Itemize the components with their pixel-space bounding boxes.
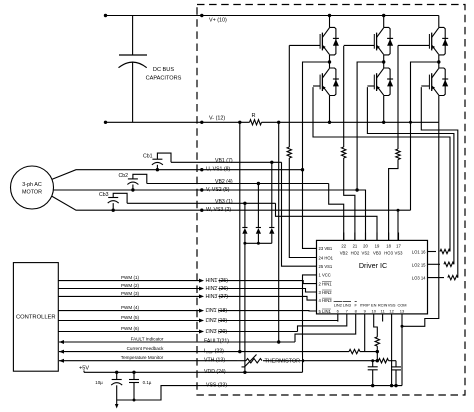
wire LO3 gate return [421,87,458,278]
svg-text:VS3: VS3 [395,251,404,256]
node C1 at thermistor row [371,359,374,362]
wire Cb3 bottom lead [112,203,114,210]
wire V- bus right segment [262,121,439,123]
node VB3 bootstrap diode tap [243,202,246,205]
wire C3 top lead [116,372,118,379]
svg-text:Cb2: Cb2 [118,173,128,179]
svg-text:3 HIN2: 3 HIN2 [319,290,333,295]
svg-text:20: 20 [363,244,368,249]
resistor RC filter [379,359,389,363]
pin 10 EN stub [373,314,375,322]
wire HO2 gate column lower [344,158,355,240]
op-amp U1 Driver IC box [317,240,428,314]
capacitor Cb2 [128,178,138,180]
wire thermistor to VCC column [263,360,303,362]
wire FAULT row [59,341,295,343]
svg-text:RCIN: RCIN [378,303,388,308]
svg-text:VSS (23): VSS (23) [206,382,227,388]
node V+ at module boundary [200,14,203,17]
capacitor DC bus (polarized) [119,54,147,56]
wire LIN1 row to IC [219,310,317,312]
svg-text:ITRIP (22): ITRIP (22) [204,348,224,354]
resistor LO1 gate [440,249,450,253]
wire PWM 3 row [58,295,200,297]
transistor Q3 high-side IGBT [383,16,385,28]
wire ITRIP pin riser [364,322,366,352]
svg-text:5 LIN1: 5 LIN1 [319,309,332,314]
wire COM staircase from V- rail [402,122,439,326]
wire C3 bottom lead [116,385,118,400]
transistor Q5 high-side IGBT [438,16,440,28]
svg-text:10: 10 [371,308,376,313]
motor M 3-ph AC [11,166,54,209]
wire PWM 1 row [58,280,200,282]
svg-text:17: 17 [396,244,401,249]
pin 22 VB2 stub [343,233,345,241]
svg-text:VDD (24): VDD (24) [204,369,226,375]
node phase W [437,60,440,63]
node phase V [382,60,385,63]
svg-text:PWM (6): PWM (6) [121,326,140,331]
resistor EN pull [375,337,379,346]
wire bootstrap diode 3 column [271,162,273,227]
node V- at phase 1 [328,121,331,124]
wire PWM 4 row [58,310,200,312]
capacitor C3 electrolytic [112,379,122,381]
pin 19 VB3 stub [376,233,378,241]
wire ITRIP row [59,351,349,353]
transistor Q6 low-side IGBT [438,62,440,68]
wire V+ bus rail [106,15,439,17]
node VSS rail junction [390,384,393,387]
wire VB3 jog to IC pin 19 [276,203,378,240]
svg-text:Driver IC: Driver IC [359,261,387,270]
wire HO2 gate column upper [343,46,345,147]
wire HIN1 row to IC [219,281,317,284]
node V+ at phase 2 [382,14,385,17]
arrow into HIN3 [199,294,204,298]
svg-text:PWM (4): PWM (4) [121,305,140,310]
svg-text:VS2: VS2 [362,251,371,256]
pin 18 HO3 stub [388,233,390,241]
node VCC column at thermistor row [301,359,304,362]
wire DC bus cap bottom lead [132,62,134,123]
node V- COM tap [277,121,280,124]
svg-text:LIN3: LIN3 [343,303,351,308]
wire EN resistor to ITRIP row [376,346,378,352]
wire ITRIP resistor to pin [360,351,377,353]
wire VB2 row [147,183,329,185]
wire VDD feed column [244,243,246,372]
wire COM tap column [278,122,280,342]
node V sense column junction [355,188,358,191]
svg-text:PWM (1): PWM (1) [121,275,140,280]
pin 12 VSS stub [391,314,393,322]
label THERMISTOR [264,355,303,363]
pin LO2 15 stub [428,263,441,265]
wire VCC pin to VDD column [303,275,317,372]
node VB1 bootstrap diode tap [270,161,273,164]
svg-text:LO2 15: LO2 15 [412,262,426,267]
node boot rail D1 [243,242,246,245]
pin 7 LIN3 stub [346,314,348,322]
wire Cb3 top lead [113,193,127,203]
svg-text:VB2 (4): VB2 (4) [215,179,233,185]
svg-text:R: R [251,113,255,119]
arrow FAULT to controller [59,340,64,344]
wire LIN2 pin routing [337,321,339,322]
svg-text:21: 21 [353,244,358,249]
node boot rail D2 [257,242,260,245]
wire C4 bottom lead [133,383,135,401]
wire LO1 to riser [449,251,451,253]
diode D2 bootstrap [256,227,261,229]
diode D3 bootstrap [269,227,274,229]
svg-text:Current Feedback: Current Feedback [127,346,164,351]
wire VB1 row [171,161,282,163]
wire Cb2 bottom lead [132,185,134,191]
wire HO3 gate column upper [397,45,399,149]
svg-text:HO2: HO2 [351,251,360,256]
wire C1 bottom lead [372,370,374,386]
wire phase W tap [411,62,439,210]
wire LO3 to riser [457,277,459,279]
wire thermistor row extension [303,360,379,362]
capacitor C1 VCC decoupling [368,366,378,368]
wire EN column to thermistor row [376,352,378,361]
svg-text:VB2: VB2 [340,251,349,256]
pin 9 ITRIP stub [364,314,366,322]
node C1 at VSS rail [371,384,374,387]
node COM tap to FAULT row [277,340,280,343]
arrow into LIN1 [199,309,204,313]
wire VTH row [237,360,246,362]
arrow into HIN1 [199,279,204,283]
wire motor phase V [53,189,357,191]
wire EN pin lead [374,322,378,337]
wire +5V tick [83,371,85,373]
wire VB3 row [127,202,275,204]
arrow into LIN3 [199,330,204,334]
wire VS1 column to IC pin 23 [303,170,317,249]
node V- at phase 2 [382,121,385,124]
pin LO1 16 stub [428,251,437,253]
svg-text:Cb1: Cb1 [143,154,153,160]
capacitor Cb3 [108,197,118,199]
svg-text:VB3: VB3 [373,251,382,256]
resistor HO1 gate [287,147,291,158]
resistor ITRIP series [349,349,360,353]
wire Cb1 bottom lead [156,165,158,170]
svg-text:VSS: VSS [388,303,396,308]
pin 20 VS2 stub [365,233,367,241]
node W bootstrap cap tap [112,209,115,212]
wire VSS rail [205,385,403,387]
wire VSS pin riser [391,322,393,386]
wire LO2 to riser [453,263,455,265]
wire bootstrap diode 1 column [244,203,246,227]
resistor LO2 gate [444,262,454,266]
svg-text:CAPACITORS: CAPACITORS [146,76,182,82]
pin 8 F stub [355,314,357,322]
pin LO3 14 stub [428,277,445,279]
svg-text:2 HIN1: 2 HIN1 [319,281,333,286]
wire VDD row under IC [205,371,303,373]
svg-text:0.1µ: 0.1µ [143,380,152,385]
svg-text:18: 18 [386,244,391,249]
svg-text:13: 13 [400,308,405,313]
svg-text:12: 12 [389,308,394,313]
node V+ at phase 1 [328,14,331,17]
wire HO1 gate column upper [288,45,290,147]
svg-text:Temperature Monitor: Temperature Monitor [121,355,164,360]
svg-text:FAULT(21): FAULT(21) [204,339,229,345]
arrow VTH to controller [59,359,64,363]
node U bootstrap cap tap [156,168,159,171]
node COM staircase junction [401,325,404,328]
wire Cb1 top lead [157,153,171,162]
wire bootstrap diode 2 column [257,184,259,228]
node VDD feed junction [243,371,246,374]
node W at module boundary [200,209,203,212]
pin 11 RCIN stub [382,314,384,322]
node V- at module boundary [200,121,203,124]
wire LIN2 row to IC pin [219,320,338,322]
pin 17 VS3 stub [398,233,400,241]
svg-text:CONTROLLER: CONTROLLER [16,315,56,321]
capacitor C4 ceramic [129,379,139,381]
wire VS3 riser to IC pin 17 [397,210,399,240]
resistor R [250,120,262,125]
svg-text:PWM (2): PWM (2) [121,283,140,288]
wire LO1 gate return [313,87,450,251]
node V- at VS3 crossing [409,121,412,124]
node V at module boundary [200,188,203,191]
node U at module boundary [200,168,203,171]
node EN at thermistor row [376,359,379,362]
wire VS2 riser to IC pin 20 [357,190,365,240]
node VB2 bootstrap diode tap [257,182,260,185]
svg-text:W, VS3 (2): W, VS3 (2) [206,207,231,213]
resistor HO2 gate [342,147,346,158]
svg-text:THERMISTOR: THERMISTOR [265,359,301,365]
capacitor Cb1 [152,158,162,160]
node C2 at VSS rail [394,384,397,387]
resistor LO3 gate [448,275,458,279]
wire HO3 gate column lower [389,160,398,241]
wire VB2 jog to IC pin 22 [329,184,344,241]
resistor HO3 gate [396,149,400,160]
node VS3 tap on W row [397,209,400,212]
wire motor phase U [52,170,303,180]
svg-text:PWM (3): PWM (3) [121,291,140,296]
svg-text:25 VS1: 25 VS1 [319,264,333,269]
transistor Q1 high-side IGBT [329,16,331,28]
svg-text:19: 19 [375,244,380,249]
node V- sense tap [238,121,241,124]
transistor Q4 low-side IGBT [383,62,385,68]
wire HIN2 row to IC [219,289,317,293]
svg-text:V, VS2 (5): V, VS2 (5) [206,187,230,193]
wire PWM 5 row [58,320,200,322]
pin 21 HO2 stub [354,233,356,241]
wire D1 to rail [244,234,246,244]
wire DC bus cap top lead [132,16,134,56]
svg-text:Cb3: Cb3 [99,192,109,198]
svg-text:FAULT Indicator: FAULT Indicator [131,337,164,342]
svg-text:23 VB1: 23 VB1 [319,246,333,251]
wire bootstrap VCC rail [245,242,272,244]
wire VSS exit to controller caps [117,386,205,400]
svg-text:10µ: 10µ [95,380,103,385]
wire motor phase W [52,196,411,210]
wire COM pin riser to VSS rail [401,322,403,386]
controller block [13,263,58,372]
svg-text:LO3 14: LO3 14 [412,276,426,281]
wire PWM 2 row [58,288,200,290]
svg-text:PWM (5): PWM (5) [121,315,140,320]
diode D1 bootstrap [242,227,247,229]
svg-text:VB1 (7): VB1 (7) [215,158,233,164]
svg-text:V+ (10): V+ (10) [209,18,227,24]
svg-text:22: 22 [341,244,346,249]
wire VTH row left [59,360,237,362]
node V+ left terminal [104,14,107,17]
svg-text:LIN2: LIN2 [334,303,342,308]
node sense to ITRIP row [238,350,241,353]
wire C4 top lead [133,372,135,379]
wire LO2 gate return [367,87,454,264]
wire VB1 jog to IC pin 25 [282,162,317,266]
thermistor RT [246,359,262,363]
svg-text:24 HO1: 24 HO1 [319,255,334,260]
wire C2 bottom lead [395,370,397,386]
node V bootstrap cap tap [131,188,134,191]
wire FAULT pin routing [295,322,356,343]
wire HO1 gate column lower [289,158,316,258]
svg-text:3-ph AC: 3-ph AC [22,182,42,188]
wire +5V to VDD row [84,371,205,373]
wire C2 top lead [395,361,397,367]
wire V- bus left segment [106,121,250,123]
svg-text:HO3: HO3 [384,251,393,256]
svg-text:1 VCC: 1 VCC [319,273,331,278]
svg-text:U, VS1 (8): U, VS1 (8) [206,167,230,173]
arrow into HIN2 [199,287,204,291]
svg-text:MOTOR: MOTOR [22,190,42,196]
arrow into LIN2 [199,319,204,323]
svg-text:4 HIN3: 4 HIN3 [319,298,333,303]
pin 13 COM stub [401,314,403,322]
svg-text:DC BUS: DC BUS [153,67,174,73]
wire D3 to rail [271,234,273,244]
wire PWM 6 row [58,331,200,333]
wire Cb2 top lead [133,174,147,183]
dashed module boundary box [197,5,465,396]
wire phase U tap [303,62,330,170]
pin 6 LIN2 stub [337,314,339,322]
svg-text:VTH (13): VTH (13) [204,357,225,363]
arrow ITRIP to controller [59,350,64,354]
node caps ground junction [133,399,136,402]
node EN at ITRIP row [376,350,379,353]
wire HIN3 row to IC [219,296,317,300]
svg-text:LO1 16: LO1 16 [412,250,426,255]
capacitor C2 VSS decoupling [391,366,401,368]
wire D2 to rail [257,234,259,244]
node phase U [328,60,331,63]
transistor Q2 low-side IGBT [329,62,331,68]
svg-text:ITRIP: ITRIP [360,303,370,308]
ground [116,400,118,405]
node cap2 tap [132,371,135,374]
node V- left terminal [104,121,107,124]
svg-text:VB3 (1): VB3 (1) [215,199,233,205]
wire current sense column [239,122,241,351]
svg-text:EN: EN [371,303,377,308]
wire LIN3 row to IC pin [219,331,298,333]
wire RC to C2 [389,360,397,362]
svg-text:COM: COM [397,303,406,308]
wire C1 top lead [372,361,374,367]
node U sense column junction [301,168,304,171]
wire LIN3 pin routing [298,322,347,332]
node cap1 tap [115,371,118,374]
svg-text:V- (12): V- (12) [209,116,225,122]
wire phase V tap [357,62,384,190]
